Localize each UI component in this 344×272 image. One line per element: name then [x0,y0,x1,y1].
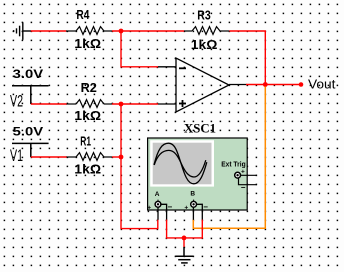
wire V1 to R1 [31,156,67,158]
node ground junction [182,236,187,241]
resistor R2 [67,100,113,108]
svg-text:+: + [184,204,188,211]
svg-text:1kΩ: 1kΩ [74,162,101,177]
ground GND1 [14,22,32,40]
wire plus-input bus down to scope A [121,104,158,229]
terminal Ext Trig [235,168,246,192]
svg-text:R2: R2 [81,81,97,95]
node junction minus input [119,29,124,34]
svg-text:1kΩ: 1kΩ [191,37,218,52]
source V1 [12,143,49,157]
wire R1 to junction [112,156,121,158]
scope waveform trace 1 [154,143,207,184]
scope body [148,138,248,210]
svg-text:Vout: Vout [308,77,336,92]
scope screen [153,143,212,185]
svg-text:R4: R4 [76,8,89,22]
node junction plus input [119,102,124,107]
pin Ext Trig minus stub [239,178,258,185]
wire opamp output to Vout [246,84,301,86]
ground GND2 [175,247,193,263]
pin B plus [192,207,194,220]
node Vout terminal [299,82,304,87]
svg-text:V1: V1 [10,147,23,165]
resistor R1 [67,153,113,161]
op-amp plus sign [179,100,186,107]
svg-text:B: B [190,191,195,198]
resistor R3 [184,27,229,35]
svg-text:3.0V: 3.0V [13,69,44,81]
svg-text:R3: R3 [197,9,211,23]
wire scope A minus / B minus to ground [167,220,203,238]
terminal A [147,200,172,212]
svg-text:+: + [147,204,151,211]
svg-text:1kΩ: 1kΩ [74,36,101,51]
svg-text:+: + [241,168,245,175]
wire orange Vout to scope B [193,87,265,229]
wire V2 to R2 [31,103,67,105]
scope waveform trace 2 [154,150,206,177]
wire R3 right down to output node [229,31,265,85]
resistor R4 [66,27,113,35]
pin A plus [157,207,159,220]
wire ground to R4 [31,30,67,32]
node junction R1 [119,155,124,160]
pin Ext Trig plus stub [241,174,258,176]
svg-text:5.0V: 5.0V [13,127,44,139]
wire R4 to junction to R3 and opamp minus [112,30,185,32]
svg-text:−: − [168,203,173,212]
op-amp U1 [158,58,247,112]
wire junction to ground [183,238,185,247]
svg-text:R1: R1 [80,135,91,149]
pin A minus [161,204,167,220]
svg-text:XSC1: XSC1 [184,120,216,135]
svg-text:A: A [155,191,160,198]
node output junction [263,82,268,87]
svg-text:−: − [203,203,208,212]
terminal B [184,200,208,212]
svg-text:1kΩ: 1kΩ [74,108,101,123]
source V2 [12,86,49,104]
scope screen bezel [150,140,214,186]
pin B minus [197,204,203,220]
wire R2 to junction to opamp plus [112,103,158,105]
op-amp minus sign [179,67,186,69]
oscilloscope XSC1 [147,120,257,220]
svg-text:V2: V2 [10,92,23,110]
